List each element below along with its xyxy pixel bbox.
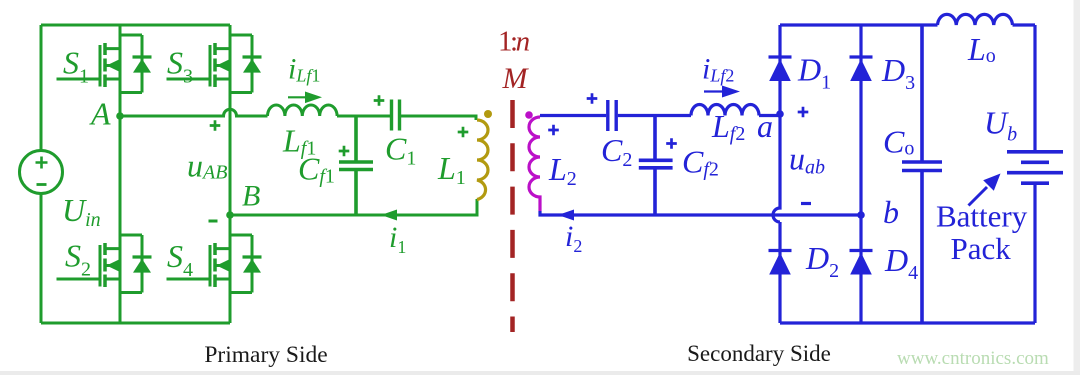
svg-text:uab: uab: [789, 141, 825, 179]
svg-text:www.cntronics.com: www.cntronics.com: [897, 348, 1049, 369]
polarity + of uab: [798, 107, 809, 118]
inductor Lo: [938, 14, 1013, 25]
transformer primary dot: [484, 110, 492, 118]
polarity + of Cf1: [339, 146, 350, 157]
svg-text:Cf1: Cf1: [298, 151, 335, 188]
transistor S4: [167, 235, 262, 293]
polarity + of L2: [548, 125, 559, 136]
body diode: [120, 235, 142, 293]
voltage source Uin: [20, 151, 63, 194]
svg-text:a: a: [757, 108, 773, 144]
svg-text:Pack: Pack: [951, 231, 1012, 266]
node a: [776, 110, 784, 118]
polarity + of source Uin: [36, 157, 48, 169]
GREEN PRIMARY SIDE: [20, 25, 231, 323]
svg-text:Battery: Battery: [936, 199, 1028, 234]
svg-text:Primary Side: Primary Side: [204, 342, 327, 368]
inductor L2 (transformer secondary winding): [529, 117, 540, 211]
current arrow iLf2: [704, 90, 722, 92]
current arrow i2: [558, 210, 574, 221]
wire: bridge leg 2 (S3/S4): [229, 25, 232, 323]
wire: rectifier top rail right of Lo: [1013, 23, 1036, 26]
diode D3: [850, 55, 873, 58]
svg-text:i2: i2: [565, 220, 582, 256]
wire: battery negative lead: [1033, 185, 1036, 323]
wire: C1 to L1 top: [401, 116, 476, 120]
wire: bridge leg 1 (S1/S2): [119, 25, 122, 323]
svg-text:D4: D4: [884, 242, 918, 284]
battery Ub plates: [1007, 152, 1063, 183]
capacitor Cf2: [639, 116, 673, 216]
svg-text:C1: C1: [385, 131, 416, 170]
node A: [116, 112, 124, 120]
transformer secondary dot: [525, 111, 533, 119]
polarity - of uAB: [209, 220, 218, 223]
diode D2: [769, 249, 792, 252]
transistor S3: [167, 35, 262, 93]
node B: [226, 211, 234, 219]
body diode: [230, 235, 252, 293]
svg-text:D3: D3: [881, 52, 915, 94]
body diode: [230, 35, 252, 93]
inductor Lf2: [691, 105, 759, 116]
inductor L1 (transformer primary winding): [477, 120, 488, 200]
wire: primary bottom rail: [41, 322, 230, 325]
svg-text:S2: S2: [65, 238, 91, 281]
node b: [857, 211, 865, 219]
diode D4: [850, 249, 873, 252]
transistor S2: [57, 235, 152, 293]
svg-text:D2: D2: [805, 240, 839, 282]
wire: Lf2 to node a: [759, 114, 780, 117]
svg-text:B: B: [242, 180, 260, 213]
polarity + of uAB: [210, 120, 221, 131]
wire: primary DC bus top rail: [41, 24, 230, 27]
wire: primary left rail lower segment: [40, 194, 43, 324]
wire: rectifier right leg D3/D4: [859, 25, 862, 323]
current arrow i1: [381, 210, 397, 221]
transistor S1: [57, 35, 152, 93]
svg-text:Uin: Uin: [62, 192, 101, 231]
capacitor C2: [608, 100, 616, 131]
svg-text:Secondary Side: Secondary Side: [687, 341, 831, 366]
wire: Lf1 to C1 via Cf1 tap: [337, 115, 390, 118]
polarity + of C2: [587, 93, 598, 104]
wire: node A to Lf1 with hop over leg 2: [120, 109, 268, 116]
svg-text:Lo: Lo: [967, 31, 996, 67]
svg-text:L2: L2: [548, 151, 577, 190]
svg-text:uAB: uAB: [187, 148, 227, 184]
wire: rectifier bottom rail: [780, 321, 1035, 324]
wire: L2 top to C2: [540, 114, 606, 117]
svg-text:S1: S1: [63, 45, 89, 88]
diode D1: [769, 55, 792, 58]
annotation arrow pointing to battery: [969, 187, 988, 206]
svg-text:iLf1: iLf1: [288, 53, 320, 86]
wire: secondary bottom net L2 to node b: [540, 211, 861, 215]
wire: primary left rail upper segment: [40, 25, 43, 151]
wire: rectifier left leg D1/D2 with hop over bottom net: [773, 25, 780, 323]
body diode: [120, 35, 142, 93]
transformer core 1:n dashed line: [510, 100, 515, 332]
svg-text:iLf2: iLf2: [702, 53, 734, 86]
wire: C2 to Lf2 via Cf2 tap: [618, 114, 691, 117]
svg-text:i1: i1: [389, 221, 406, 257]
BLUE SECONDARY SIDE: [540, 14, 1063, 323]
svg-text:Ub: Ub: [984, 105, 1017, 146]
svg-text:C2: C2: [601, 132, 632, 171]
wire: rectifier top rail left of Lo: [780, 23, 938, 26]
svg-text:Cf2: Cf2: [682, 144, 719, 181]
svg-text:Co: Co: [883, 124, 914, 160]
current arrow iLf1: [288, 96, 306, 98]
capacitor C1: [392, 100, 400, 131]
svg-text:S3: S3: [167, 45, 193, 88]
svg-text:Lf2: Lf2: [711, 108, 745, 145]
capacitor Cf1: [339, 116, 373, 215]
svg-text:A: A: [89, 96, 111, 132]
inductor Lf1: [268, 105, 338, 116]
svg-text:b: b: [883, 194, 899, 230]
svg-text:S4: S4: [167, 238, 193, 281]
polarity + of L1: [458, 127, 469, 138]
polarity - of source Uin: [37, 183, 47, 186]
polarity + of C1: [374, 95, 385, 106]
svg-text:L1: L1: [437, 150, 466, 189]
svg-text:M: M: [502, 62, 530, 95]
svg-text:1:n: 1:n: [498, 26, 530, 58]
svg-text:D1: D1: [797, 52, 831, 94]
wire: L1 bottom to node B: [230, 199, 477, 215]
capacitor Co with branch stems: [902, 25, 942, 323]
wire: battery positive lead: [1033, 25, 1036, 150]
polarity - of uab: [801, 202, 811, 205]
polarity + of Cf2: [666, 138, 677, 149]
